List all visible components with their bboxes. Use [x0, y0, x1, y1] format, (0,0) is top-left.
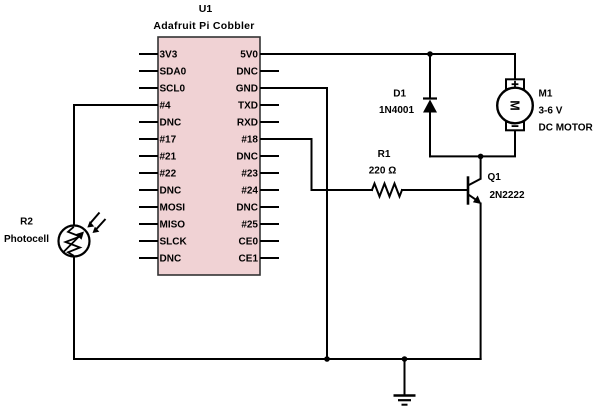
svg-text:SCL0: SCL0 — [160, 84, 186, 95]
svg-text:M: M — [508, 100, 522, 110]
svg-text:3V3: 3V3 — [160, 50, 178, 61]
svg-text:DNC: DNC — [160, 118, 182, 129]
svg-text:DNC: DNC — [160, 186, 182, 197]
svg-text:SDA0: SDA0 — [160, 67, 187, 78]
svg-text:CE0: CE0 — [239, 237, 259, 248]
svg-text:5V0: 5V0 — [240, 50, 258, 61]
svg-text:DNC: DNC — [236, 152, 258, 163]
svg-text:TXD: TXD — [238, 101, 258, 112]
svg-text:RXD: RXD — [237, 118, 258, 129]
svg-text:#21: #21 — [160, 152, 177, 163]
svg-text:1N4001: 1N4001 — [379, 105, 414, 116]
svg-text:MOSI: MOSI — [160, 203, 186, 214]
svg-text:GND: GND — [236, 84, 258, 95]
svg-text:CE1: CE1 — [239, 254, 259, 265]
svg-text:Q1: Q1 — [488, 172, 502, 183]
svg-text:220 Ω: 220 Ω — [369, 165, 396, 176]
svg-text:DC MOTOR: DC MOTOR — [539, 122, 594, 133]
svg-text:#4: #4 — [160, 101, 172, 112]
svg-text:DNC: DNC — [160, 254, 182, 265]
svg-text:SLCK: SLCK — [160, 237, 188, 248]
svg-text:M1: M1 — [539, 89, 553, 100]
svg-text:R2: R2 — [20, 216, 33, 227]
svg-text:Photocell: Photocell — [4, 234, 49, 245]
svg-text:#22: #22 — [160, 169, 177, 180]
svg-text:U1: U1 — [199, 3, 213, 15]
svg-text:#18: #18 — [241, 135, 258, 146]
svg-text:2N2222: 2N2222 — [490, 190, 525, 201]
svg-text:#23: #23 — [241, 169, 258, 180]
svg-text:R1: R1 — [378, 149, 391, 160]
svg-text:#25: #25 — [241, 220, 258, 231]
svg-text:Adafruit Pi Cobbler: Adafruit Pi Cobbler — [153, 20, 254, 32]
svg-text:#17: #17 — [160, 135, 177, 146]
svg-text:D1: D1 — [393, 89, 406, 100]
svg-text:DNC: DNC — [236, 67, 258, 78]
svg-text:MISO: MISO — [160, 220, 186, 231]
svg-text:#24: #24 — [241, 186, 258, 197]
svg-text:3-6 V: 3-6 V — [539, 106, 563, 117]
svg-text:DNC: DNC — [236, 203, 258, 214]
